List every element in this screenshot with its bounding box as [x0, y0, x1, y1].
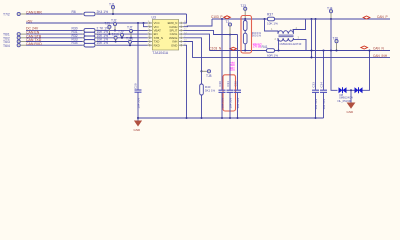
test point TJ10	[112, 33, 119, 43]
svg-text:2K4 1%: 2K4 1%	[97, 10, 109, 14]
wire choke pin1	[265, 19, 279, 34]
U3 right pin stubs	[179, 22, 184, 47]
choke core lines	[279, 34, 294, 36]
resistor R41	[262, 45, 279, 58]
svg-text:C31: C31	[226, 81, 230, 87]
svg-text:CAN_P: CAN_P	[377, 15, 388, 19]
wire CAN TXD	[26, 41, 83, 43]
no-ERC marker CAN_N right	[361, 46, 368, 49]
highlight box R8	[241, 16, 252, 54]
svg-text:C32: C32	[233, 81, 237, 87]
wire R39 to CAN_N	[244, 44, 246, 51]
U3 right pin names	[168, 21, 178, 47]
svg-text:C30: C30	[218, 81, 222, 87]
svg-text:GND: GND	[171, 43, 177, 47]
wire right branch A	[310, 18, 312, 59]
connector pin T6/3	[3, 40, 26, 44]
wire C29 to ground rail	[137, 92, 139, 118]
choke bottom winding	[278, 38, 293, 41]
junction CAN_P / choke pin1	[263, 18, 265, 20]
svg-text:10K 1%: 10K 1%	[97, 41, 109, 45]
TVS diode D8	[339, 87, 347, 93]
wire +5V	[26, 22, 148, 24]
wire CAN STB	[26, 37, 83, 39]
wire CAN EN	[26, 33, 83, 35]
wire choke pin2	[277, 38, 280, 50]
wire CANL to CAN_N	[184, 34, 210, 50]
connector pin T6/1	[3, 33, 26, 37]
connector pin T6/4	[3, 44, 26, 48]
svg-text:R37: R37	[267, 12, 273, 16]
svg-text:10K 1%: 10K 1%	[267, 22, 278, 26]
svg-text:TJ2: TJ2	[111, 18, 117, 22]
test point TJ4	[327, 7, 333, 20]
GND symbol left	[134, 118, 143, 132]
wire ERR_N riser	[184, 14, 187, 23]
test point TJ12	[226, 20, 232, 35]
no-ERC marker CAN_N left	[230, 47, 237, 50]
svg-text:RXD: RXD	[154, 43, 160, 47]
junction GND riser / ground rail	[185, 117, 187, 119]
svg-text:CAN_N: CAN_N	[373, 47, 385, 51]
capacitor C32 branch	[233, 35, 241, 120]
svg-text:CAN ERR: CAN ERR	[26, 10, 42, 14]
TVS diode D9	[355, 87, 363, 93]
capacitor C31 branch	[226, 35, 234, 120]
U3 right pin numbers	[184, 21, 187, 45]
test point TJ5	[105, 21, 112, 35]
wire CANH to CAN_P	[184, 19, 213, 27]
svg-text:TJ7: TJ7	[127, 25, 133, 29]
wire INH to CAN_INH	[184, 42, 391, 58]
connector pin T7/2	[3, 12, 26, 16]
wire TVS branch	[331, 19, 338, 90]
resistor R37	[267, 12, 278, 25]
svg-text:5K1 1%: 5K1 1%	[205, 88, 216, 92]
wire CAN_P to R38	[244, 19, 246, 21]
resistor R39	[243, 33, 261, 44]
wire TVS right riser	[363, 51, 370, 91]
wire GND pin riser	[184, 45, 187, 118]
no-ERC marker CAN_P right	[363, 16, 370, 19]
svg-text:R6: R6	[72, 10, 76, 14]
svg-text:R34: R34	[72, 41, 78, 45]
wire CAN_P bus	[212, 18, 390, 20]
svg-text:C103_P: C103_P	[211, 15, 223, 19]
svg-text:104 50V: 104 50V	[314, 99, 318, 110]
svg-text:104 50V: 104 50V	[322, 99, 326, 110]
U3 left pin numbers	[148, 21, 151, 45]
wire between TVS diodes	[347, 89, 355, 91]
svg-text:104 50V: 104 50V	[137, 98, 141, 109]
svg-text:104 50V: 104 50V	[221, 98, 225, 109]
svg-text:C33: C33	[311, 82, 315, 88]
resistor R30	[72, 26, 110, 32]
svg-text:GND: GND	[134, 128, 142, 132]
wire R38 to R39	[244, 31, 246, 34]
no-ERC marker CAN_P left	[224, 16, 231, 19]
svg-text:TJ11: TJ11	[126, 36, 133, 40]
resistor R33	[72, 38, 109, 44]
svg-text:GND: GND	[347, 110, 355, 114]
svg-text:TJ9: TJ9	[118, 30, 124, 34]
svg-text:104 50V: 104 50V	[236, 98, 240, 109]
svg-text:R41: R41	[262, 45, 268, 49]
svg-text:预留: 预留	[228, 62, 235, 72]
svg-text:C29: C29	[133, 83, 137, 89]
wire DC 24V	[26, 29, 83, 31]
resistor R6	[72, 10, 109, 16]
svg-text:T6/4: T6/4	[3, 44, 10, 48]
resistor R34	[72, 41, 109, 47]
sheet background	[0, 0, 400, 133]
resistor R40	[200, 84, 216, 95]
test point TJ7	[127, 25, 133, 38]
svg-text:60R 1%: 60R 1%	[267, 53, 278, 57]
junction node +5V / C29 branch	[137, 22, 139, 24]
svg-text:TJA1041A: TJA1041A	[152, 51, 169, 55]
test point TJ11	[126, 36, 133, 46]
svg-text:L7: L7	[290, 28, 294, 32]
svg-text:T7/2: T7/2	[3, 13, 10, 17]
wire CAN_N bus	[210, 50, 391, 52]
test point TJ9	[118, 30, 124, 39]
test point TJ6	[333, 37, 339, 52]
svg-text:3K0 1%: 3K0 1%	[252, 34, 262, 38]
capacitor C34 branch	[319, 49, 327, 118]
capacitor C30 branch	[218, 18, 226, 119]
capacitor C33 branch	[311, 18, 319, 119]
svg-text:C34: C34	[319, 82, 323, 88]
wire choke pin3	[293, 38, 306, 50]
svg-text:TJ5: TJ5	[105, 21, 111, 25]
resistor R38	[243, 21, 261, 36]
test point TJ2	[111, 18, 117, 31]
junction SPLIT / C31	[229, 33, 231, 35]
wire choke pin4	[293, 19, 305, 34]
svg-text:CAN_INH: CAN_INH	[373, 54, 388, 58]
svg-text:C103_N: C103_N	[210, 47, 222, 51]
PGND symbol	[338, 90, 356, 114]
resistor R31	[72, 30, 109, 36]
wire CAN RXD	[26, 44, 83, 46]
wire SPLIT	[184, 30, 238, 34]
resistor R32	[72, 34, 109, 40]
wire WAKE to R40	[184, 38, 202, 84]
test point TJ1	[109, 3, 115, 15]
wire CAN ERR	[26, 13, 83, 15]
wire +5V decoupling branch	[137, 23, 139, 90]
wire VIO riser	[144, 23, 148, 27]
wire R40 to rail	[201, 95, 203, 118]
IC U3 TJA1041A	[152, 15, 179, 55]
ground rail	[138, 117, 324, 119]
test point TJ8	[200, 70, 211, 78]
test point TJ3	[241, 4, 247, 20]
connector pin T6/2	[3, 36, 26, 40]
common mode choke CMW1034 top winding	[278, 31, 293, 34]
highlight box capacitors	[223, 75, 236, 111]
svg-text:CMW1034-222T4F: CMW1034-222T4F	[280, 42, 302, 46]
U3 left pin stubs	[148, 22, 153, 47]
svg-text:U3: U3	[152, 15, 156, 19]
U3 left pin names	[154, 21, 163, 47]
svg-text:TJ8: TJ8	[206, 74, 212, 78]
svg-text:CAN RXD: CAN RXD	[26, 42, 42, 46]
capacitor C29	[133, 83, 141, 108]
junction node +5V / VIO riser	[142, 22, 144, 24]
svg-text:104 50V: 104 50V	[229, 98, 233, 109]
